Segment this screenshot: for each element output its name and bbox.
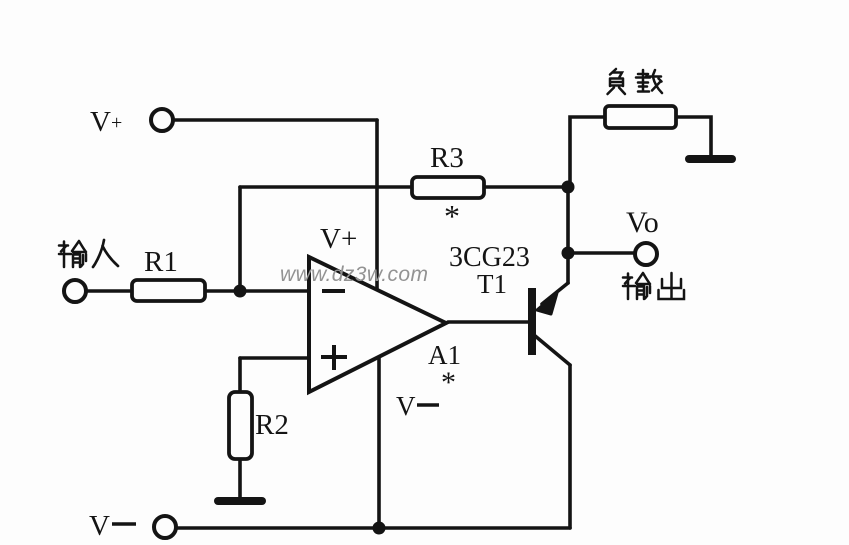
wire load resistor to ground	[676, 117, 711, 155]
svg-text:www.dz3w.com: www.dz3w.com	[280, 263, 428, 286]
svg-text:V+: V+	[320, 223, 357, 255]
resistor R1	[132, 280, 205, 301]
wire R1 to op-amp inverting input	[205, 289, 309, 293]
transistor T1 base bar	[528, 288, 536, 355]
svg-text:V+: V+	[90, 106, 122, 138]
terminal V+	[151, 109, 173, 131]
label shu-chu (output) hanzi: chu	[659, 273, 685, 299]
ground beside load	[685, 155, 736, 163]
wire feedback horizontal left of R3	[240, 185, 412, 189]
svg-text:*: *	[444, 198, 460, 234]
svg-text:Vo: Vo	[626, 206, 659, 239]
junction dot Vo node	[562, 247, 575, 260]
label shu-ru (input) hanzi: ru	[93, 240, 118, 267]
wire collector vertical down	[568, 365, 572, 528]
wire collector diagonal of T1	[534, 335, 570, 365]
junction dot V- rail	[373, 522, 386, 535]
wire feedback vertical down to inverting input	[238, 187, 242, 291]
resistor R2	[229, 392, 252, 459]
label shu-chu (output) hanzi: shu	[623, 273, 650, 299]
svg-text:T1: T1	[477, 269, 507, 299]
svg-text:*: *	[441, 366, 456, 399]
terminal V-	[154, 516, 176, 538]
wire input terminal to R1	[87, 289, 132, 293]
svg-text:V: V	[396, 391, 416, 421]
label fu-zai (load) hanzi: zai	[636, 70, 662, 93]
resistor load (negative-load)	[605, 106, 676, 128]
transistor T1 emitter arrow head	[537, 293, 557, 314]
wire R3 right to node N1	[484, 185, 568, 189]
terminal input	[64, 280, 86, 302]
wire non-inverting input horizontal	[240, 356, 309, 360]
wire node to R2 top	[238, 358, 242, 392]
wire op-amp output to base of T1	[448, 320, 529, 324]
svg-text:V: V	[89, 510, 110, 542]
label shu-ru (input) hanzi: shu	[59, 241, 86, 267]
svg-text:R1: R1	[144, 246, 178, 278]
wire node N1 down to emitter	[566, 187, 570, 283]
svg-text:R2: R2	[255, 409, 289, 441]
wire R2 bottom to ground	[238, 459, 242, 497]
wire V+ vertical to op-amp top	[375, 120, 379, 290]
ground below R2	[214, 497, 266, 505]
wire node Vo to output terminal	[568, 251, 635, 255]
wire emitter diagonal of T1	[542, 283, 568, 304]
op-amp A1 triangle	[309, 257, 446, 392]
wire bottom V- rail	[177, 526, 570, 530]
svg-text:R3: R3	[430, 142, 464, 174]
op-amp inverting input minus sign	[322, 289, 345, 293]
wire op-amp V- pin to bottom rail	[377, 357, 381, 528]
wire node N1 up-left to load resistor	[570, 117, 605, 185]
resistor R3	[412, 177, 484, 198]
terminal Vo	[635, 243, 657, 265]
junction dot inverting node	[234, 285, 247, 298]
junction dot node N1 (R3/load/emitter)	[562, 181, 575, 194]
wire V+ top horizontal	[174, 118, 377, 122]
op-amp non-inverting input plus sign	[321, 345, 347, 370]
label fu-zai (load) hanzi: fu	[608, 69, 626, 94]
